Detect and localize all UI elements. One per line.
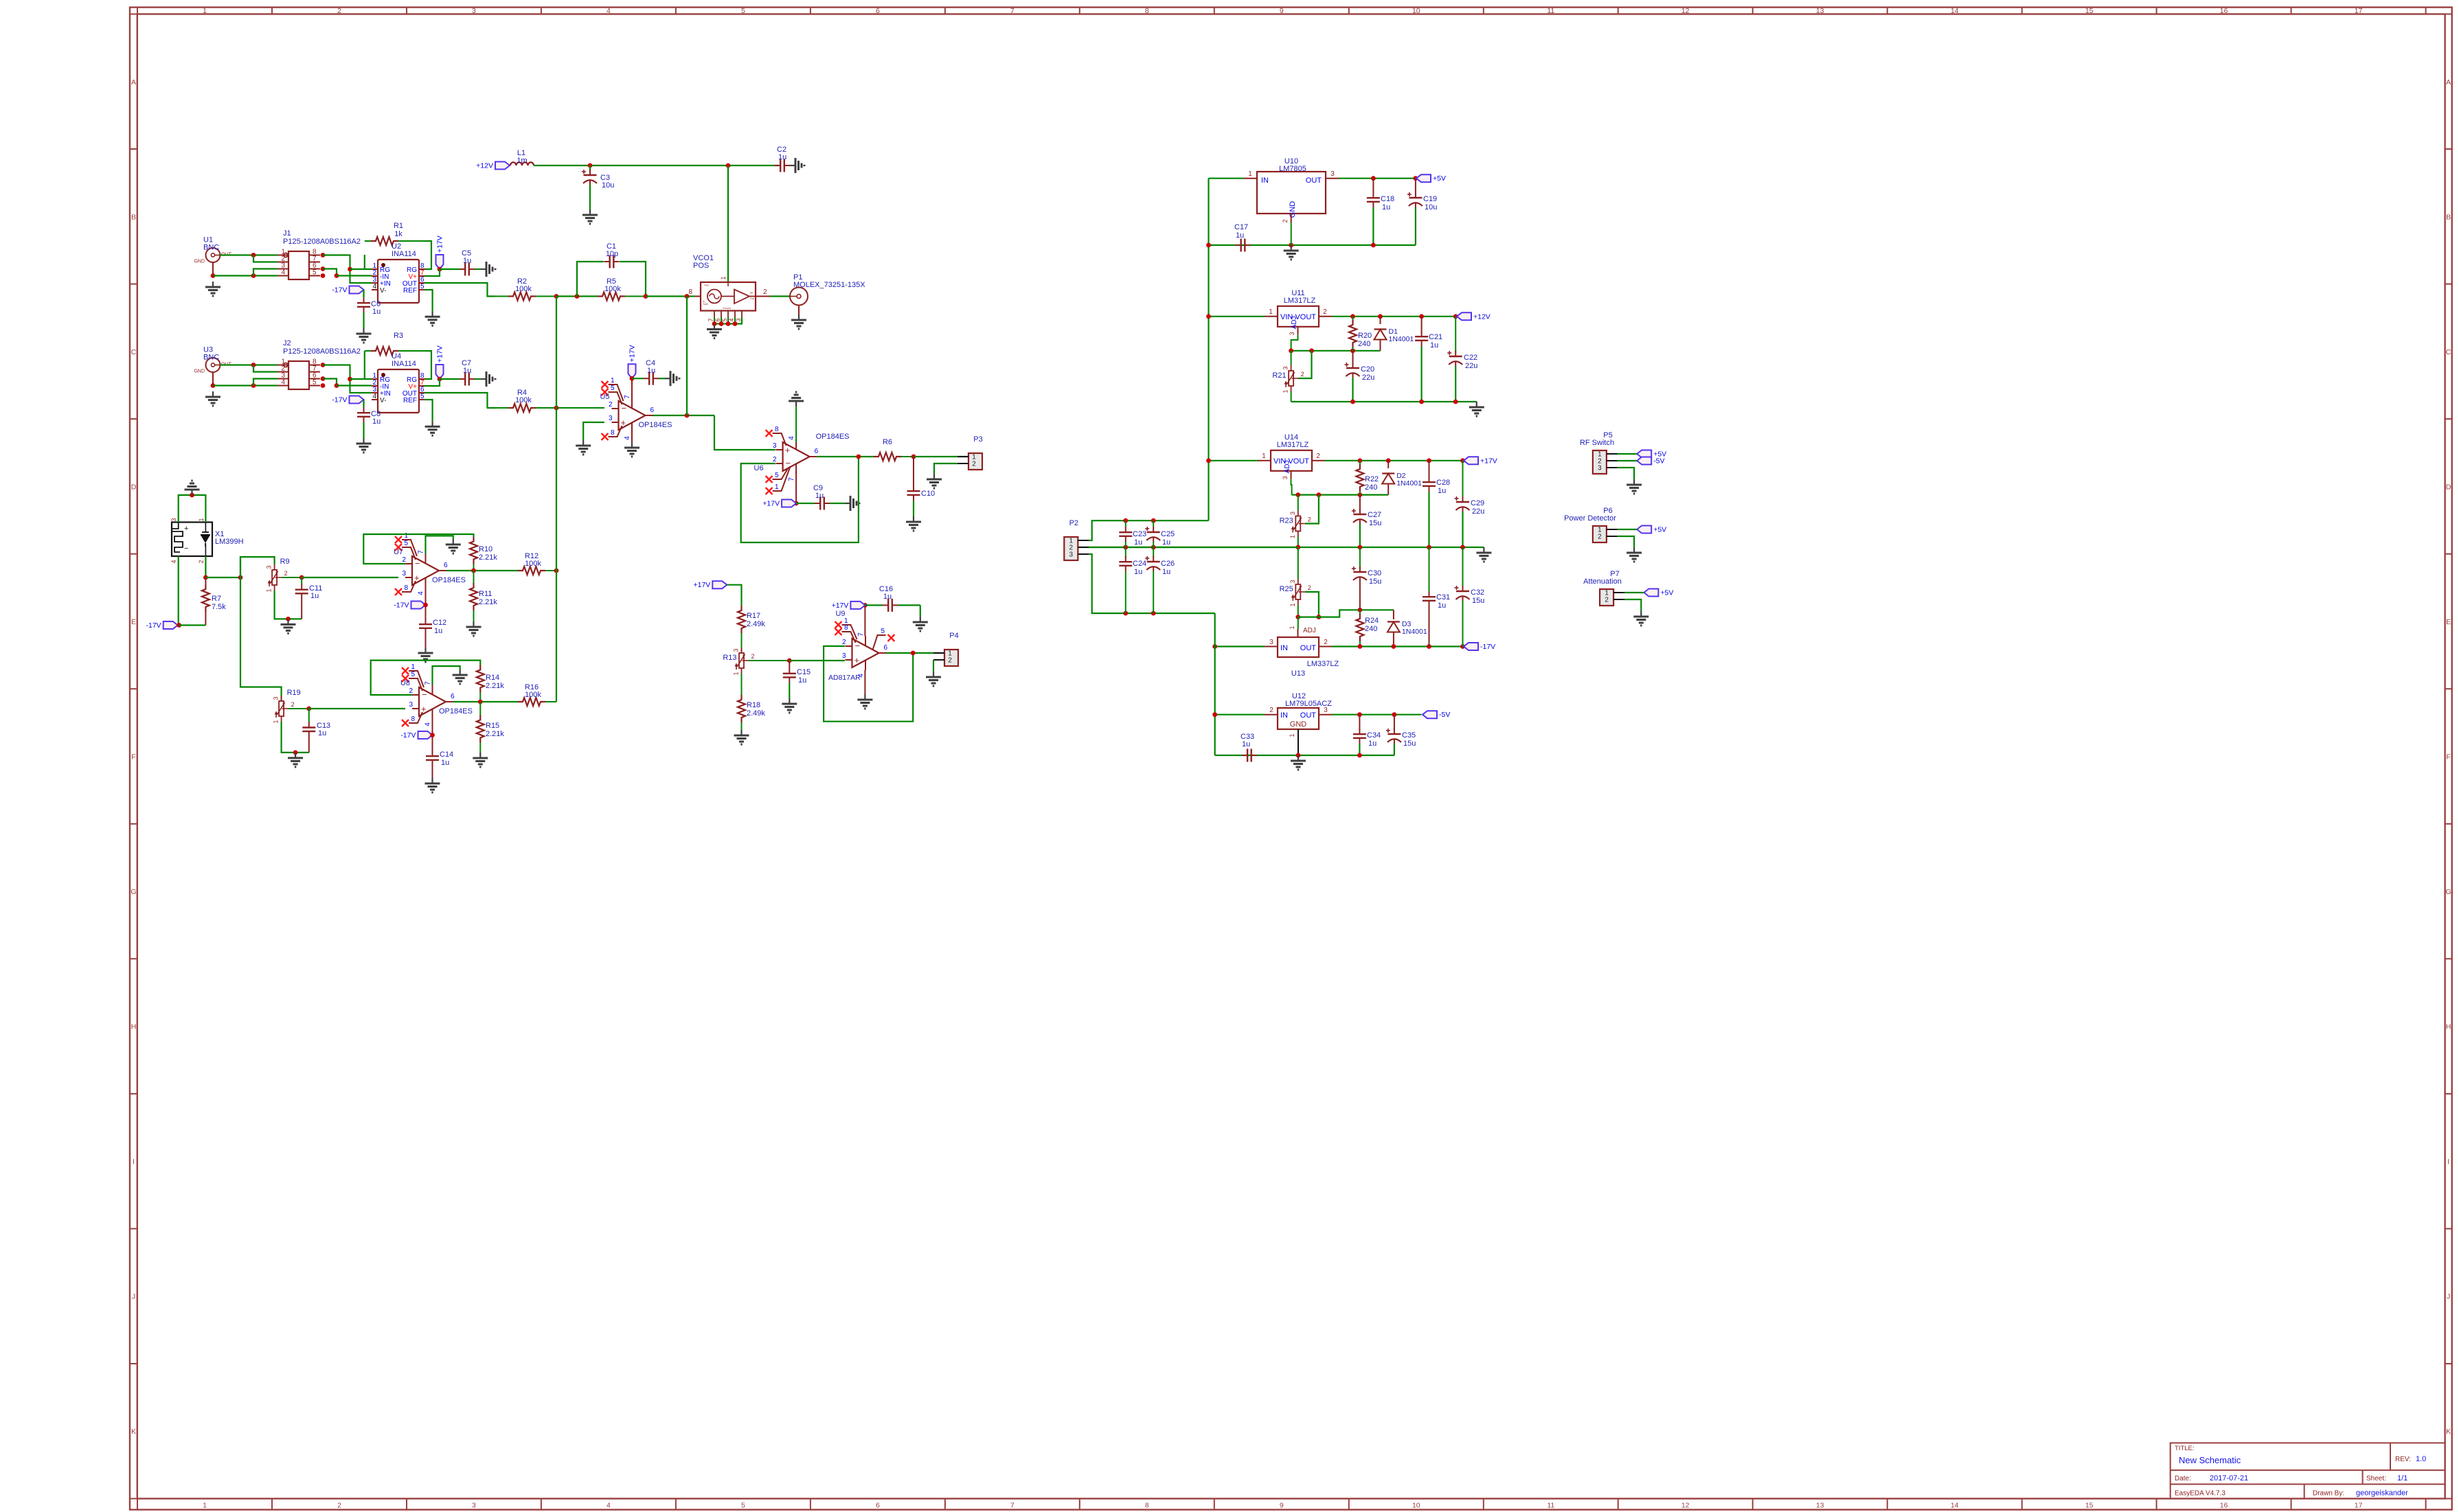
wire P2 pin3: [1089, 554, 1214, 613]
power flag +17V (U5): [628, 345, 637, 378]
wire adj row 3: [1298, 610, 1394, 617]
svg-text:R23: R23: [1280, 517, 1293, 525]
svg-text:100k: 100k: [515, 396, 532, 404]
svg-text:C: C: [131, 348, 137, 356]
svg-text:D: D: [2446, 483, 2451, 491]
IC U4 INA114: [372, 352, 425, 413]
svg-text:2: 2: [1308, 584, 1311, 591]
wire P5 pin1: [1618, 453, 1637, 455]
junction C22 bottom: [1453, 400, 1458, 404]
connector P4: [933, 632, 959, 666]
wire U3 OUT to J2 pin1: [220, 364, 278, 365]
regulator U12 LM79L05ACZ: [1265, 692, 1332, 737]
svg-text:J: J: [2447, 1293, 2450, 1301]
power flag -17V (U4): [332, 396, 363, 404]
wire VCO ground bus: [714, 317, 742, 324]
wire U6 pin4 up: [795, 406, 797, 442]
svg-text:3: 3: [1282, 366, 1289, 369]
svg-text:1N4001: 1N4001: [1402, 628, 1427, 636]
svg-text:H: H: [131, 1023, 137, 1031]
svg-text:-17V: -17V: [332, 396, 347, 404]
junction C25 top: [1151, 518, 1156, 523]
svg-text:C22: C22: [1464, 354, 1477, 362]
wire U10 pin2: [1291, 222, 1292, 245]
ground C15: [782, 698, 797, 713]
svg-text:J: J: [132, 1293, 135, 1301]
svg-text:C28: C28: [1436, 479, 1450, 487]
capacitor C31: [1423, 547, 1450, 647]
svg-text:2: 2: [198, 560, 205, 563]
svg-text:GND: GND: [1290, 720, 1307, 729]
power flag +5V (P5): [1637, 450, 1666, 459]
svg-text:8: 8: [411, 715, 415, 723]
svg-text:D: D: [131, 483, 137, 491]
junction R12 out: [554, 569, 559, 573]
svg-text:+17V: +17V: [436, 345, 444, 363]
wire left vertical: [240, 557, 282, 696]
svg-text:1u: 1u: [434, 627, 442, 635]
junction U5 out node: [685, 413, 690, 418]
regulator U14 LM317LZ: [1258, 433, 1325, 480]
svg-text:1: 1: [733, 672, 740, 675]
capacitor C11: [295, 577, 323, 619]
svg-text:1m: 1m: [517, 157, 527, 165]
svg-text:2: 2: [751, 653, 755, 660]
wire VCO out: [770, 295, 790, 297]
svg-text:5: 5: [721, 318, 728, 321]
wire R19 bottom: [282, 722, 309, 753]
svg-text:3: 3: [1330, 170, 1335, 178]
capacitor C9: [796, 484, 845, 510]
junction R4/vertical: [554, 406, 559, 411]
svg-text:10u: 10u: [602, 181, 614, 190]
svg-text:RF Switch: RF Switch: [1580, 439, 1614, 447]
capacitor C18: [1367, 179, 1394, 245]
svg-text:3: 3: [266, 565, 273, 569]
ground C16: [913, 617, 928, 631]
capacitor C8: [357, 400, 381, 438]
svg-text:8: 8: [404, 584, 408, 592]
svg-text:ADJ: ADJ: [1291, 316, 1298, 329]
svg-text:5: 5: [313, 269, 317, 277]
capacitor C12: [419, 619, 446, 648]
resistor R16 100k: [518, 683, 556, 706]
svg-text:J2: J2: [283, 339, 291, 347]
svg-text:3: 3: [170, 518, 177, 521]
wire R13 to R18: [741, 674, 743, 695]
wire U12 out: [1332, 714, 1421, 715]
power flag +17V (U6): [762, 500, 796, 508]
wire U1 gnd row: [213, 275, 277, 276]
svg-text:OP184ES: OP184ES: [639, 421, 672, 429]
svg-text:−: −: [415, 558, 420, 569]
capacitor C21: [1415, 317, 1442, 402]
junction U7 -17V: [423, 603, 428, 608]
junction -17V X1: [177, 623, 181, 628]
svg-text:G: G: [131, 888, 136, 896]
svg-text:OUT: OUT: [1306, 176, 1322, 185]
junction U8 -17V: [430, 733, 435, 737]
wire U14 vin: [1209, 460, 1258, 461]
svg-text:E: E: [2446, 618, 2451, 626]
wire to J1 pin3: [253, 269, 277, 276]
ground R19: [288, 753, 303, 767]
svg-text:C18: C18: [1381, 195, 1394, 203]
svg-text:INA114: INA114: [392, 250, 416, 258]
wire U11 vout rail: [1332, 316, 1455, 317]
svg-text:1u: 1u: [463, 367, 471, 375]
junction D3 bottom: [1392, 644, 1396, 649]
svg-text:GND: GND: [1289, 201, 1297, 218]
svg-text:1: 1: [720, 276, 727, 279]
wire -IN net b: [337, 385, 372, 386]
svg-text:2: 2: [1598, 534, 1602, 541]
svg-text:16: 16: [2220, 1502, 2228, 1510]
svg-text:Power Detector: Power Detector: [1564, 514, 1616, 523]
junction U9 +17V: [863, 603, 868, 608]
wire R13 to U9: [789, 660, 845, 661]
svg-text:1u: 1u: [1368, 740, 1376, 748]
svg-text:7: 7: [857, 632, 865, 637]
capacitor C20: [1345, 351, 1375, 402]
svg-text:2: 2: [1323, 308, 1327, 316]
svg-text:2.21k: 2.21k: [479, 553, 497, 562]
junction gnd C27: [1358, 545, 1363, 550]
svg-text:R7: R7: [212, 595, 221, 603]
svg-text:C20: C20: [1361, 365, 1374, 374]
svg-text:OUT: OUT: [1300, 644, 1317, 652]
connector P6 Power Detector: [1593, 526, 1618, 542]
capacitor C6: [357, 290, 381, 328]
wire X1 to vertical: [205, 577, 240, 578]
capacitor C27: [1352, 495, 1381, 547]
wire U2 OUT jog: [424, 283, 495, 297]
junction C1 left: [575, 294, 580, 299]
svg-text:2.21k: 2.21k: [486, 682, 504, 690]
wire U8 out: [453, 701, 518, 702]
svg-text:R13: R13: [723, 654, 736, 662]
junction U6 out node: [857, 455, 861, 459]
svg-text:1: 1: [203, 7, 207, 15]
junction C26 bottom: [1151, 611, 1156, 616]
wire U9 out: [887, 652, 945, 654]
svg-text:7: 7: [624, 395, 631, 399]
svg-text:+12V: +12V: [476, 162, 493, 170]
wire U5 to U6: [714, 415, 775, 450]
junction adj3 a: [1295, 615, 1300, 619]
svg-text:C10: C10: [921, 490, 935, 498]
junction X1 net: [238, 575, 243, 580]
resistor R18 2.49k: [738, 695, 765, 722]
svg-text:2: 2: [1269, 707, 1273, 714]
svg-text:22u: 22u: [1472, 507, 1484, 516]
svg-text:5: 5: [881, 628, 885, 635]
svg-text:1u: 1u: [1382, 203, 1390, 211]
svg-text:-5V: -5V: [1439, 711, 1450, 719]
svg-text:+17V: +17V: [436, 236, 444, 253]
svg-text:4: 4: [372, 283, 376, 290]
IC X1 LM399H: [170, 518, 244, 563]
svg-text:100k: 100k: [515, 285, 532, 293]
svg-text:1u: 1u: [798, 676, 806, 685]
svg-text:C21: C21: [1429, 333, 1442, 341]
svg-text:C: C: [2446, 348, 2451, 356]
wire U11 vin: [1209, 316, 1265, 317]
ground R9: [281, 619, 296, 633]
capacitor C26: [1145, 547, 1175, 613]
junction R19 wiper: [306, 707, 311, 711]
svg-text:P125-1208A0BS116A2: P125-1208A0BS116A2: [283, 238, 361, 246]
junction U3 gnd: [211, 383, 216, 388]
wire R9 wiper: [282, 577, 302, 578]
junction D2 top: [1386, 458, 1391, 463]
svg-text:LM337LZ: LM337LZ: [1307, 660, 1339, 668]
svg-text:1N4001: 1N4001: [1396, 479, 1422, 488]
svg-text:R3: R3: [394, 332, 403, 340]
svg-text:−: −: [622, 403, 627, 413]
junction bottom row b: [251, 383, 256, 388]
svg-text:8: 8: [1145, 7, 1149, 15]
svg-text:15u: 15u: [1369, 519, 1381, 527]
svg-text:15: 15: [2085, 1502, 2094, 1510]
wire J1 pin6 to pin5: [323, 269, 337, 276]
wire +12V rail: [534, 165, 780, 166]
svg-text:14: 14: [1951, 1502, 1959, 1510]
svg-text:Vout: Vout: [704, 284, 709, 287]
junction X1 pin2/R7: [203, 575, 208, 580]
wire P3 pin2 gnd: [934, 463, 957, 474]
diode D3 1N4001: [1387, 610, 1427, 646]
wire U13 in: [1215, 645, 1265, 647]
wire VCO pin1 drop: [727, 165, 729, 282]
potentiometer R23: [1280, 511, 1311, 539]
junction R13 wiper: [787, 658, 792, 663]
svg-text:I: I: [133, 1158, 135, 1166]
svg-text:OUT: OUT: [1300, 711, 1317, 720]
svg-text:1: 1: [411, 663, 415, 671]
power flag +5V (U10): [1416, 174, 1446, 183]
junction C19 top: [1414, 176, 1418, 181]
wire R6 to P3: [914, 456, 968, 457]
regulator U10 LM7805: [1244, 157, 1339, 223]
wire adj row: [1291, 350, 1381, 352]
wire U11 adj: [1291, 335, 1298, 351]
wire to J2 pin3: [253, 379, 277, 386]
junction J2 pin6: [321, 376, 326, 381]
svg-text:1u: 1u: [647, 367, 655, 375]
ground R18: [734, 730, 749, 744]
connector P3: [957, 435, 983, 470]
connector P7 Attenuation: [1600, 589, 1624, 606]
svg-text:OP184ES: OP184ES: [816, 433, 850, 441]
junction adj2 b: [1317, 492, 1322, 497]
svg-text:K: K: [2446, 1428, 2451, 1436]
svg-text:8: 8: [688, 288, 692, 296]
svg-text:17: 17: [2355, 1502, 2363, 1510]
wire gnd from P2: [1089, 547, 1298, 548]
wire U11 bottom rail: [1291, 401, 1477, 402]
connector P2: [1064, 519, 1089, 560]
op-amp U8 OP184ES: [400, 663, 473, 726]
svg-text:J1: J1: [283, 229, 291, 238]
svg-text:7: 7: [788, 477, 795, 481]
junction R9 gnd: [286, 617, 291, 621]
title block: [2171, 1443, 2445, 1498]
junction U3 out: [251, 363, 256, 367]
ground VCO: [707, 324, 722, 339]
junction C34 top: [1357, 712, 1362, 717]
ground C14: [425, 778, 440, 792]
junction pin5 net: [335, 273, 339, 278]
resistor R2 100k: [495, 277, 557, 301]
svg-text:6: 6: [884, 644, 888, 652]
wire U4 pin7 to +17V: [424, 379, 440, 386]
svg-text:3: 3: [472, 1502, 476, 1510]
svg-text:K: K: [131, 1428, 136, 1436]
wire U5 pin7: [631, 378, 633, 401]
ground C3: [582, 209, 598, 224]
ground P3: [927, 474, 942, 488]
svg-text:7: 7: [1010, 7, 1015, 15]
wire U10 out: [1339, 178, 1416, 179]
wire U10 in: [1209, 178, 1244, 179]
junction C20 bottom: [1350, 400, 1355, 404]
svg-text:3: 3: [1289, 332, 1295, 335]
svg-text:-5V: -5V: [1653, 457, 1664, 466]
power flag +5V (P6): [1637, 526, 1666, 534]
svg-text:BNC: BNC: [203, 244, 219, 252]
svg-text:8: 8: [1145, 1502, 1149, 1510]
svg-text:1u: 1u: [1162, 568, 1170, 576]
svg-text:U8: U8: [400, 679, 410, 687]
svg-text:GND: GND: [194, 369, 205, 374]
svg-text:2.49k: 2.49k: [747, 620, 765, 628]
regulator U13 LM337LZ: [1265, 626, 1339, 678]
junction VCO pin7: [712, 321, 717, 326]
svg-text:P3: P3: [973, 435, 982, 444]
capacitor C4: [632, 359, 665, 385]
svg-text:2.49k: 2.49k: [747, 709, 765, 718]
junction C23 bottom: [1123, 545, 1128, 550]
svg-text:A: A: [131, 78, 136, 87]
junction U12 in: [1212, 712, 1217, 717]
junction J1 pin6: [321, 266, 326, 271]
svg-text:VOUT: VOUT: [1288, 457, 1309, 466]
svg-text:1u: 1u: [883, 593, 892, 601]
svg-text:1: 1: [203, 1502, 207, 1510]
capacitor C14: [426, 751, 453, 778]
inductor L1: [510, 149, 534, 165]
svg-text:P125-1208A0BS116A2: P125-1208A0BS116A2: [283, 347, 361, 356]
svg-text:3: 3: [1289, 512, 1296, 515]
wire X1 pin2 down: [205, 556, 206, 577]
svg-text:LM317LZ: LM317LZ: [1284, 297, 1316, 305]
potentiometer R9: [266, 558, 290, 593]
svg-text:−: −: [184, 545, 188, 553]
ground U11 rail: [1469, 402, 1484, 416]
wire U8 pin7 gnd: [433, 666, 460, 685]
capacitor C10: [907, 457, 936, 516]
svg-text:100k: 100k: [604, 285, 621, 293]
svg-text:4: 4: [424, 722, 432, 726]
ground C2: [790, 158, 804, 173]
svg-text:MOLEX_73251-135X: MOLEX_73251-135X: [793, 281, 865, 289]
svg-text:1u: 1u: [441, 759, 449, 767]
wire R9 to U7: [302, 577, 398, 578]
ground U3: [205, 391, 220, 406]
svg-text:1u: 1u: [318, 729, 326, 737]
resistor R7 7.5k: [202, 577, 226, 626]
svg-text:6: 6: [815, 448, 819, 455]
svg-text:6: 6: [451, 693, 455, 700]
wire +17V to R17: [727, 585, 741, 606]
wire U7 pin7 gnd: [426, 536, 453, 553]
svg-text:1: 1: [1289, 603, 1296, 606]
svg-text:5: 5: [741, 1502, 745, 1510]
svg-text:C15: C15: [797, 668, 811, 676]
ground C10: [906, 516, 921, 531]
wire P5 pin3 gnd: [1618, 468, 1634, 479]
resistor R3 1k: [365, 332, 431, 379]
potentiometer R19: [273, 689, 301, 724]
wire adj row 2: [1292, 494, 1389, 495]
svg-text:R10: R10: [479, 545, 492, 553]
junction U14 vin: [1206, 458, 1211, 463]
svg-text:R17: R17: [747, 612, 760, 620]
svg-text:240: 240: [1358, 340, 1370, 348]
svg-text:4: 4: [418, 591, 425, 595]
ground C4: [665, 371, 679, 386]
capacitor C5: [440, 249, 481, 276]
power flag -17V (U2): [332, 286, 363, 295]
junction adj3 b: [1317, 615, 1322, 619]
potentiometer R25: [1280, 579, 1311, 607]
ground U2 REF: [425, 311, 440, 325]
wire U5 pin3 gnd: [583, 422, 604, 440]
ground C9: [845, 496, 859, 511]
connector P5 RF Switch: [1593, 450, 1618, 474]
svg-text:9: 9: [1280, 7, 1284, 15]
wire U6 feedback: [741, 457, 859, 542]
wire U14 adj: [1291, 479, 1292, 495]
junction D1 top: [1378, 314, 1383, 319]
junction U1 out: [251, 253, 256, 257]
svg-text:5: 5: [404, 540, 408, 547]
ground U5 pin4: [624, 442, 639, 457]
svg-text:Tune: Tune: [703, 303, 708, 306]
junction C23 top: [1123, 518, 1128, 523]
svg-text:OP184ES: OP184ES: [439, 707, 473, 715]
wire P4 pin2 gnd: [933, 660, 934, 672]
junction J2 pin5: [321, 383, 326, 388]
svg-text:100k: 100k: [525, 691, 541, 699]
ground U4 REF: [425, 421, 440, 435]
resistor R20 240: [1349, 317, 1372, 351]
wire J2 pin6 to pin5: [323, 379, 337, 386]
svg-text:Out: Out: [750, 297, 754, 300]
svg-text:2: 2: [763, 288, 767, 296]
svg-text:1u: 1u: [1438, 487, 1446, 495]
svg-text:1u: 1u: [1134, 568, 1142, 576]
svg-text:3: 3: [773, 442, 777, 450]
svg-text:C29: C29: [1471, 499, 1484, 507]
ground C8: [356, 438, 372, 453]
resistor R12 100k: [518, 552, 556, 575]
svg-text:3: 3: [273, 696, 280, 700]
svg-text:16: 16: [2220, 7, 2228, 15]
ground U7 pin7: [446, 539, 461, 553]
connector U3 BNC: [194, 346, 231, 387]
